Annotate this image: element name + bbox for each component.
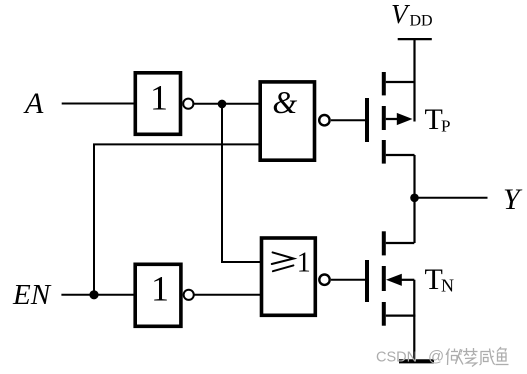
svg-text:P: P (441, 117, 450, 136)
svg-text:@: @ (428, 348, 444, 365)
svg-text:DD: DD (410, 12, 433, 29)
svg-text:A: A (23, 87, 44, 120)
svg-text:1: 1 (297, 248, 311, 279)
svg-text:1: 1 (150, 78, 168, 118)
svg-text:N: N (441, 275, 454, 295)
svg-text:&: & (272, 84, 297, 120)
svg-text:CSDN: CSDN (376, 349, 417, 365)
svg-text:1: 1 (151, 269, 169, 309)
svg-text:EN: EN (12, 279, 52, 311)
